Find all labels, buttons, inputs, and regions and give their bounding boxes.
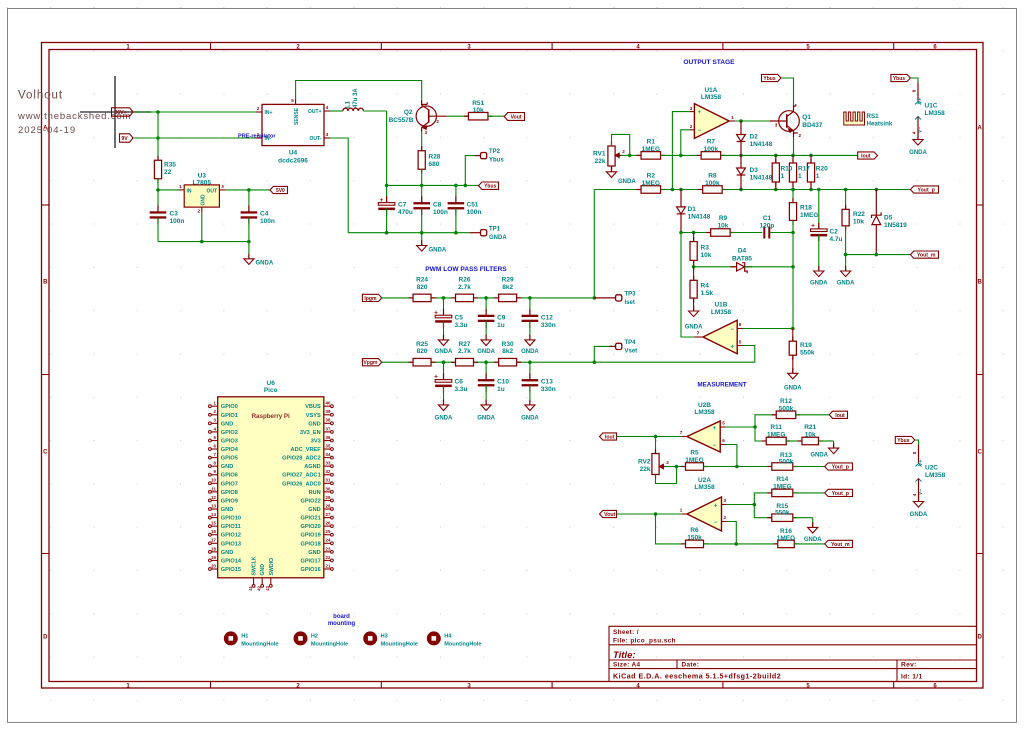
resistor R14 [767, 492, 772, 494]
svg-text:GNDA: GNDA [784, 385, 802, 391]
svg-text:D3: D3 [750, 167, 759, 174]
svg-text:IN+: IN+ [265, 110, 273, 116]
wire Q2 collector to R28 [421, 132, 423, 152]
U6 pin 24 GPIO18 [324, 542, 331, 544]
svg-text:GPIO28_ADC2: GPIO28_ADC2 [282, 456, 321, 462]
diode D3 1N4148 [740, 155, 742, 168]
svg-text:GPIO26_ADC0: GPIO26_ADC0 [282, 481, 321, 487]
svg-text:−: − [731, 327, 735, 333]
svg-text:Iout: Iout [861, 154, 871, 160]
ground GNDA R15 [812, 522, 814, 527]
svg-text:550k: 550k [800, 350, 815, 357]
U3 OUT pin [219, 189, 225, 191]
svg-text:Vout: Vout [604, 512, 615, 518]
svg-text:GND: GND [200, 194, 206, 206]
svg-text:R27: R27 [459, 341, 471, 348]
ground GNDA U2C [918, 496, 920, 501]
svg-text:GPIO9: GPIO9 [221, 498, 238, 504]
svg-text:GPIO21: GPIO21 [300, 516, 320, 522]
wire U2C to ground [918, 498, 920, 502]
junction input node [156, 110, 160, 114]
ground GNDA C5 [443, 335, 445, 340]
U6 pin 5 GPIO3 [211, 439, 218, 441]
wire U2B pin6 net [726, 445, 737, 467]
svg-text:GNDA: GNDA [804, 537, 822, 543]
svg-text:2: 2 [799, 133, 802, 138]
wire R13 to Yout_p [793, 466, 825, 468]
U4 pin 5 SENSE [295, 99, 297, 104]
resistor R18 [791, 188, 795, 192]
svg-text:C51: C51 [467, 202, 479, 209]
wire input node down to R35 [157, 112, 159, 160]
resistor R20 (shunt) [810, 155, 812, 163]
svg-text:V+: V+ [918, 460, 924, 466]
svg-text:Yout_p: Yout_p [832, 465, 849, 471]
svg-text:47u 3A: 47u 3A [353, 88, 359, 108]
svg-text:GNDA: GNDA [435, 416, 453, 422]
capacitor C4 [248, 190, 250, 213]
svg-text:GND: GND [308, 507, 320, 513]
svg-text:TP3: TP3 [625, 292, 637, 298]
svg-text:Date:: Date: [682, 662, 700, 669]
svg-text:GPIO18: GPIO18 [300, 541, 320, 547]
svg-text:Vpgm: Vpgm [363, 360, 378, 366]
svg-text:PWM LOW PASS FILTERS: PWM LOW PASS FILTERS [425, 266, 507, 273]
svg-text:VSYS: VSYS [306, 413, 321, 419]
U1A pin 3 + [689, 111, 694, 113]
svg-text:BAT85: BAT85 [732, 256, 752, 263]
ground GNDA RV1 [611, 166, 613, 172]
svg-text:MEASUREMENT: MEASUREMENT [697, 382, 746, 389]
svg-text:43: 43 [265, 585, 270, 590]
svg-text:Volhout: Volhout [18, 90, 63, 102]
svg-text:R6: R6 [690, 527, 699, 534]
svg-text:GNDA: GNDA [909, 150, 927, 156]
svg-text:+: + [731, 344, 735, 350]
svg-text:GPIO8: GPIO8 [221, 490, 238, 496]
svg-text:36V+: 36V+ [114, 110, 126, 116]
global label Vout [504, 113, 524, 121]
mounting hole H3 [363, 631, 377, 645]
svg-text:4.7u: 4.7u [830, 236, 843, 243]
U6 pin 34 GPIO28_ADC2 [324, 457, 331, 459]
U6 pin 12 GPIO9 [211, 499, 218, 501]
junction 9V node [156, 136, 160, 140]
wire U3 GND down [201, 213, 203, 242]
svg-text:H1: H1 [241, 633, 248, 639]
svg-text:R1: R1 [647, 139, 656, 146]
U6 pin 22 GPIO17 [324, 559, 331, 561]
wire OUT- down [330, 138, 348, 233]
wire R1 to R7 [661, 154, 701, 156]
svg-text:42: 42 [256, 585, 261, 590]
svg-text:11: 11 [211, 486, 216, 491]
global label Iout (measurement) [600, 433, 617, 440]
resistor R24 [409, 297, 414, 299]
svg-text:GND: GND [221, 464, 233, 470]
global label Vpgm [362, 359, 381, 366]
svg-text:H4: H4 [444, 633, 452, 639]
svg-text:C8: C8 [433, 202, 442, 209]
svg-text:U2A: U2A [698, 477, 711, 484]
svg-text:GNDA: GNDA [810, 452, 828, 458]
svg-text:U3: U3 [198, 172, 207, 179]
svg-text:R14: R14 [776, 476, 788, 483]
wire pin3 net [672, 112, 689, 190]
svg-text:3V3: 3V3 [311, 438, 321, 444]
svg-text:C6: C6 [455, 379, 464, 386]
svg-text:Yout_m: Yout_m [917, 253, 936, 259]
svg-text:C10: C10 [497, 379, 509, 386]
svg-text:C12: C12 [541, 314, 553, 321]
transistor Q1 BD437 [779, 111, 800, 132]
svg-text:3.3u: 3.3u [455, 386, 468, 393]
svg-text:R26: R26 [459, 277, 471, 284]
wire U2A pin2 net [727, 522, 737, 544]
svg-text:OUT+: OUT+ [308, 109, 322, 115]
diode D4 BAT85 [731, 266, 737, 268]
svg-text:4: 4 [912, 131, 917, 134]
junction C9 [484, 296, 488, 300]
svg-text:19: 19 [211, 555, 216, 560]
svg-text:100n: 100n [433, 209, 448, 216]
svg-text:R8: R8 [708, 173, 717, 180]
svg-text:4: 4 [326, 105, 329, 110]
svg-text:1N4148: 1N4148 [750, 141, 773, 148]
svg-text:GPIO7: GPIO7 [221, 481, 238, 487]
svg-text:17: 17 [211, 538, 216, 543]
svg-text:RUN: RUN [309, 490, 321, 496]
graphic line horizontal [80, 111, 151, 113]
svg-text:GPIO4: GPIO4 [221, 447, 239, 453]
svg-text:15: 15 [211, 521, 216, 526]
title block [609, 626, 977, 681]
resistor R6 [681, 543, 686, 545]
svg-text:MountingHole: MountingHole [381, 642, 418, 648]
svg-text:20: 20 [211, 563, 216, 568]
svg-text:GNDA: GNDA [521, 349, 539, 355]
svg-text:8k2: 8k2 [502, 348, 513, 355]
svg-text:D: D [978, 635, 983, 641]
wire U1B pin5 to Vset line [594, 346, 755, 363]
svg-text:22: 22 [326, 555, 331, 560]
svg-text:1N4148: 1N4148 [750, 175, 773, 182]
svg-text:35: 35 [326, 443, 331, 448]
svg-text:C13: C13 [541, 379, 553, 386]
svg-text:550k: 550k [775, 509, 790, 516]
svg-text:1MEG: 1MEG [767, 432, 785, 439]
wire R2 feed from Iset node [594, 189, 641, 191]
svg-text:R4: R4 [701, 283, 710, 290]
heatsink RS1 [844, 112, 865, 125]
svg-text:TP4: TP4 [625, 340, 637, 346]
U6 pin 23 GND [324, 551, 331, 553]
svg-text:100n: 100n [467, 209, 482, 216]
svg-text:1N4148: 1N4148 [688, 214, 711, 221]
svg-text:820: 820 [417, 284, 428, 291]
svg-text:330n: 330n [541, 386, 556, 393]
resistor R16 [773, 543, 778, 545]
global label 36V+ [112, 108, 134, 116]
svg-text:25: 25 [326, 529, 331, 534]
power unit U1C LM358 [891, 74, 911, 81]
U6 pin 42 GND [261, 578, 263, 585]
svg-text:8k2: 8k2 [502, 284, 513, 291]
resistor R27 [451, 361, 456, 363]
wire Iset vertical [593, 190, 595, 298]
wire R6 to feedback node [704, 543, 778, 545]
svg-text:C9: C9 [497, 314, 506, 321]
svg-text:2: 2 [436, 119, 439, 124]
inductor L1 [343, 108, 363, 111]
svg-text:RV1: RV1 [593, 151, 606, 158]
svg-text:18: 18 [211, 546, 216, 551]
svg-text:R3: R3 [701, 245, 710, 252]
U6 pin 18 GND [211, 551, 218, 553]
svg-text:R30: R30 [502, 341, 514, 348]
svg-text:Q1: Q1 [802, 114, 811, 121]
svg-text:GNDA: GNDA [477, 349, 495, 355]
U6 pin 28 GND [324, 508, 331, 510]
svg-text:−: − [713, 443, 717, 449]
svg-text:100k: 100k [704, 146, 719, 153]
svg-text:B: B [978, 280, 983, 286]
svg-text:1: 1 [179, 184, 182, 189]
ground GNDA R19 [792, 368, 794, 373]
svg-text:Rev:: Rev: [901, 662, 917, 669]
resistor R22 [845, 190, 847, 210]
svg-text:4: 4 [912, 493, 917, 496]
svg-text:GPIO0: GPIO0 [221, 404, 238, 410]
svg-text:D2: D2 [750, 133, 759, 140]
svg-text:LM358: LM358 [711, 309, 732, 316]
svg-text:LM358: LM358 [925, 110, 946, 117]
U6 pin 25 GPIO19 [324, 534, 331, 536]
svg-text:3: 3 [690, 106, 693, 111]
resistor R7 [697, 154, 702, 156]
svg-text:23: 23 [326, 546, 331, 551]
U6 pin 30 RUN [324, 491, 331, 493]
svg-text:MountingHole: MountingHole [444, 642, 481, 648]
svg-text:3V3_EN: 3V3_EN [300, 430, 321, 436]
svg-text:1MEG: 1MEG [777, 535, 795, 542]
ground GNDA C13 [529, 400, 531, 405]
global label Vout (measurement) [600, 510, 617, 517]
svg-text:GPIO14: GPIO14 [221, 558, 242, 564]
U2A pin 2 - [722, 521, 727, 523]
svg-text:32: 32 [326, 469, 331, 474]
U2A pin 3 + [722, 504, 727, 506]
U6 pin 33 AGND [324, 465, 331, 467]
svg-text:24: 24 [326, 538, 331, 543]
global label Yout_p (meas 2) [825, 489, 853, 496]
trimmer RV2 22k [655, 437, 657, 454]
wire Vout node to R6 [656, 514, 686, 544]
resistor R19 [792, 329, 794, 342]
transistor Q2 BC557B [416, 106, 436, 126]
svg-text:1MEG: 1MEG [685, 457, 703, 464]
svg-text:26: 26 [326, 521, 331, 526]
svg-text:1MEG: 1MEG [800, 212, 818, 219]
U1B pin 6 - [737, 328, 742, 330]
svg-text:3: 3 [724, 498, 727, 503]
resistor R51 [464, 115, 469, 117]
svg-text:37: 37 [326, 426, 331, 431]
svg-text:GPIO27_ADC1: GPIO27_ADC1 [282, 473, 321, 479]
svg-text:3: 3 [425, 130, 428, 135]
svg-text:GNDA: GNDA [256, 261, 274, 267]
svg-text:100k: 100k [705, 180, 720, 187]
svg-text:2.7k: 2.7k [458, 284, 471, 291]
U6 pin 10 GPIO7 [211, 482, 218, 484]
resistor R25 [409, 361, 414, 363]
svg-text:40: 40 [326, 401, 331, 406]
svg-text:GNDA: GNDA [521, 416, 539, 422]
svg-text:120p: 120p [760, 223, 775, 230]
svg-text:1: 1 [680, 507, 683, 512]
resistor R35 [157, 156, 159, 161]
svg-text:BC557B: BC557B [389, 117, 414, 124]
trimmer RV1 22k [611, 142, 613, 147]
svg-text:GPIO20: GPIO20 [300, 524, 320, 530]
U6 pin 40 VBUS [324, 405, 331, 407]
resistor R9 [706, 232, 711, 234]
svg-text:GPIO13: GPIO13 [221, 541, 241, 547]
mounting hole H2 [294, 631, 308, 645]
wire Vpgm row [382, 361, 595, 363]
svg-text:1u: 1u [497, 386, 505, 393]
svg-text:BD437: BD437 [802, 122, 823, 129]
ground GNDA C10 [485, 400, 487, 405]
global label 9V [120, 134, 134, 142]
svg-text:100n: 100n [260, 218, 275, 225]
wire Ybus rail [387, 184, 479, 186]
svg-text:C3: C3 [170, 211, 179, 218]
U6 pin 13 GND [211, 508, 218, 510]
svg-text:R35: R35 [164, 162, 176, 169]
svg-text:1: 1 [816, 173, 820, 180]
svg-text:R9: R9 [719, 215, 728, 222]
svg-text:GND: GND [260, 564, 266, 576]
wire R21 to ground [819, 440, 834, 442]
U6 pin 20 GPIO15 [211, 568, 218, 570]
wire ground rail [348, 232, 470, 234]
svg-text:+: + [714, 503, 718, 509]
svg-text:7: 7 [680, 430, 683, 435]
diode D1 1N4148 [680, 190, 682, 207]
svg-text:C7: C7 [398, 202, 407, 209]
wire Q2 base to R51 [447, 115, 469, 117]
resistor R10 (shunt) [775, 155, 777, 163]
capacitor C10 [485, 362, 487, 380]
U6 pin 11 GPIO8 [211, 491, 218, 493]
svg-text:Ybus: Ybus [763, 76, 775, 82]
svg-text:GNDA: GNDA [810, 281, 828, 287]
U2B pin 5 + [720, 426, 725, 428]
U6 pin 19 GPIO14 [211, 559, 218, 561]
svg-text:LM358: LM358 [694, 409, 715, 416]
test point TP1 [470, 232, 481, 234]
svg-text:GNDA: GNDA [489, 235, 507, 241]
svg-text:R10: R10 [781, 166, 793, 173]
capacitor C12 [529, 298, 531, 316]
svg-text:R29: R29 [502, 277, 514, 284]
svg-text:Ybus: Ybus [893, 76, 905, 82]
svg-text:1: 1 [798, 173, 802, 180]
svg-text:2025-04-19: 2025-04-19 [18, 125, 76, 136]
global label Yout_p (meas 1) [825, 463, 853, 470]
wire U1A out to Q1 base [735, 120, 770, 122]
svg-text:B: B [43, 280, 48, 286]
resistor R5 [677, 466, 686, 468]
junction C13 [528, 360, 532, 364]
svg-text:Id: 1/1: Id: 1/1 [901, 674, 923, 681]
resistor R11 [762, 440, 767, 442]
svg-text:Pico: Pico [264, 387, 278, 394]
svg-text:V+: V+ [918, 98, 924, 104]
svg-text:GNDA: GNDA [618, 179, 636, 185]
svg-text:GND: GND [221, 507, 233, 513]
U6 pin 1 GPIO0 [211, 405, 218, 407]
test point TP3 [593, 296, 597, 300]
svg-text:36: 36 [326, 435, 331, 440]
ground GNDA below C4 [248, 242, 250, 259]
resistor R21 [797, 440, 802, 442]
svg-text:9V: 9V [121, 136, 128, 142]
U6 pin 2 GPIO1 [211, 414, 218, 416]
wire RV2 bottom strap [656, 467, 677, 484]
svg-text:C2: C2 [830, 229, 839, 236]
svg-text:21: 21 [326, 563, 331, 568]
global label Yout_m (output stage) [910, 251, 938, 258]
wire U1B pin6 to R19 [743, 328, 793, 330]
capacitor C5 [443, 298, 445, 316]
svg-text:Heatsink: Heatsink [867, 120, 893, 127]
wire R8 to Yout_p label [722, 189, 910, 191]
wire R16 to Yout_m [794, 543, 824, 545]
svg-text:22k: 22k [595, 158, 606, 165]
svg-text:mounting: mounting [328, 621, 356, 627]
svg-text:Q2: Q2 [404, 109, 413, 116]
global label Ybus [479, 182, 499, 189]
svg-text:GPIO10: GPIO10 [221, 516, 241, 522]
svg-text:GNDA: GNDA [435, 349, 453, 355]
junction C10 [484, 360, 488, 364]
power unit U2C LM358 [895, 436, 915, 443]
test point TP2 [465, 156, 475, 186]
svg-text:6: 6 [722, 438, 725, 443]
svg-text:KiCad E.D.A. eeschema 5.1.5+d: KiCad E.D.A. eeschema 5.1.5+dfsg1-2build… [613, 673, 781, 681]
svg-text:Ipgm: Ipgm [364, 296, 377, 302]
svg-text:150k: 150k [687, 534, 702, 541]
svg-text:IN: IN [187, 188, 192, 194]
svg-text:330n: 330n [541, 322, 556, 329]
resistor R1 [637, 154, 642, 156]
U1B pin 7 out [694, 336, 703, 338]
svg-text:H2: H2 [311, 633, 318, 639]
svg-text:GPIO16: GPIO16 [300, 567, 320, 573]
svg-text:PRE-regulator: PRE-regulator [238, 134, 276, 140]
resistor R2 [637, 189, 642, 191]
svg-text:GNDA: GNDA [685, 325, 703, 331]
svg-text:MountingHole: MountingHole [311, 642, 348, 648]
svg-text:GND: GND [221, 550, 233, 556]
svg-text:10: 10 [211, 478, 216, 483]
svg-text:2: 2 [690, 124, 693, 129]
wire U2B pin5 net [726, 426, 756, 428]
svg-text:1.5k: 1.5k [701, 290, 714, 297]
svg-text:SWDIO: SWDIO [269, 558, 275, 576]
